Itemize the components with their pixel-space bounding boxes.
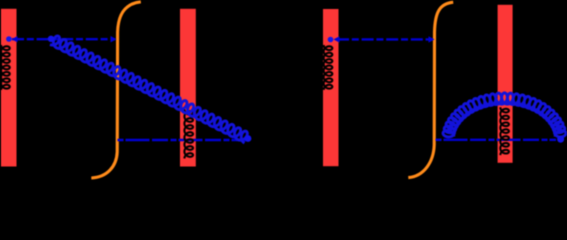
black spring on right wall, panel 1 xyxy=(184,110,193,159)
anchor dot on left wall, panel 2 xyxy=(328,37,334,43)
spring tip mass, panel 1 xyxy=(245,135,252,142)
blue stretched spring (diagonal), panel 1 xyxy=(50,36,247,143)
orange curve, panel 2 xyxy=(408,2,453,177)
dashed line top, panel 1 xyxy=(12,38,115,40)
dashed line bottom, panel 2 xyxy=(436,139,557,141)
blue arched spring, panel 2 xyxy=(443,93,566,137)
wall bar left, panel 2 xyxy=(323,9,339,166)
spring anchor blob, panel 1 xyxy=(48,36,54,42)
wall bar right, panel 1 xyxy=(180,9,196,167)
black spring on left wall, panel 1 xyxy=(1,45,10,90)
dashed line bottom, panel 1 xyxy=(118,139,248,141)
orange curve, panel 1 xyxy=(91,2,141,178)
anchor dot on left wall, panel 1 xyxy=(6,36,12,42)
black spring on left wall, panel 2 xyxy=(324,45,333,90)
wall bar right, panel 2 xyxy=(498,5,513,163)
dashed line top, panel 2 xyxy=(337,38,434,40)
black spring on right wall, panel 2 xyxy=(500,107,509,155)
wall bar left, panel 1 xyxy=(1,9,17,167)
spring tip mass, panel 2 xyxy=(557,136,564,143)
